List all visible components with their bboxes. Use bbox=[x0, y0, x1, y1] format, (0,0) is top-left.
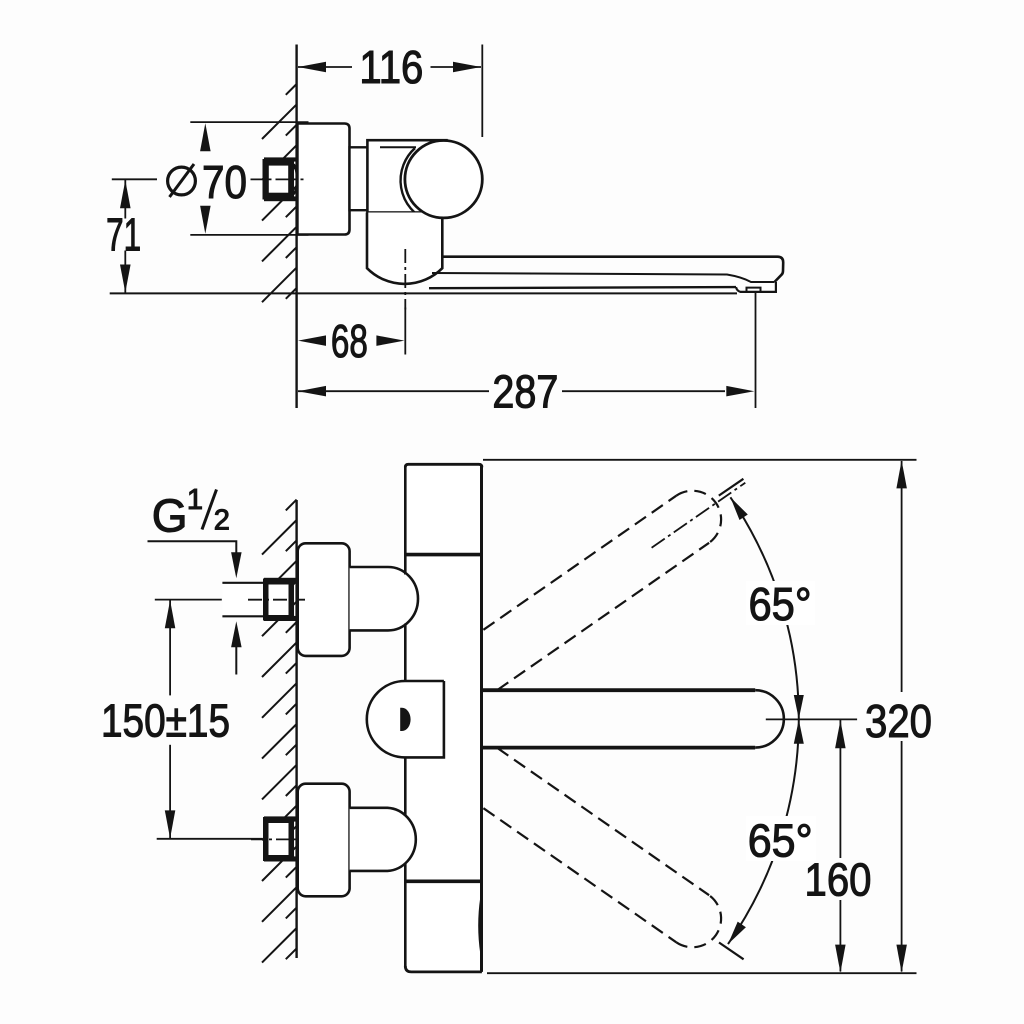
solid spout (front view) bbox=[482, 688, 755, 692]
angle text 65deg lower bbox=[746, 816, 816, 861]
lower angle tick bbox=[719, 943, 744, 960]
sensor hub (front view) bbox=[367, 681, 444, 757]
dimension 320 line and arrows bbox=[901, 461, 903, 692]
wall line (top view) bbox=[295, 45, 297, 409]
dimension 68 ext line bbox=[404, 308, 406, 355]
svg-text:287: 287 bbox=[492, 366, 558, 418]
svg-text:70: 70 bbox=[202, 156, 247, 208]
lower connector hub and dome bbox=[350, 808, 416, 871]
body outline (front view) bbox=[405, 464, 482, 467]
upper dashed spout upper edge bbox=[483, 496, 676, 630]
cartridge block (side view) bbox=[367, 140, 446, 212]
dimension 320 ext lines bbox=[483, 459, 917, 461]
svg-text:65°: 65° bbox=[749, 578, 812, 630]
angle arc lower 65deg bbox=[728, 719, 799, 944]
dimension text Ø70 bbox=[168, 167, 196, 195]
dimension Ø70 arrows bbox=[200, 123, 211, 151]
svg-text:2: 2 bbox=[214, 504, 230, 536]
hub centerline (dash-dot) bbox=[404, 249, 406, 310]
G1/2 leader line bbox=[148, 541, 237, 553]
G1/2 arrows bbox=[231, 552, 242, 578]
dimension 116 ext line right bbox=[481, 45, 483, 138]
lower dashed spout upper edge bbox=[497, 748, 709, 895]
nut cap arc (side view) bbox=[294, 164, 297, 195]
angle text 65deg upper bbox=[746, 581, 815, 625]
angle arc upper 65deg bbox=[730, 497, 798, 719]
upper connector hub and dome bbox=[350, 567, 418, 630]
top cap boundary line bbox=[404, 553, 482, 557]
bottom cap inner arc bbox=[479, 898, 481, 953]
sensor window (black) bbox=[400, 708, 410, 731]
bottom cap boundary line bbox=[404, 879, 482, 883]
dimension 116 line and arrows bbox=[298, 66, 352, 68]
dimension 71 line and arrows bbox=[124, 180, 126, 219]
lower connection nut with flange bars bbox=[264, 816, 296, 821]
upper angle tick bbox=[719, 479, 744, 496]
wall hatching (bottom view) bbox=[286, 500, 297, 511]
dimension 150±15 ext lines bbox=[155, 599, 222, 601]
lower dashed spout end cap bbox=[676, 895, 721, 947]
spout bottom edge line bbox=[429, 287, 736, 288]
svg-text:71: 71 bbox=[106, 209, 141, 261]
svg-text:160: 160 bbox=[805, 854, 872, 906]
svg-text:1: 1 bbox=[187, 484, 203, 516]
svg-text:68: 68 bbox=[331, 315, 368, 367]
inner cylinder top line bbox=[380, 146, 416, 148]
dimension 287 line and arrows bbox=[298, 390, 489, 392]
nut centerline (dash-dot) bbox=[251, 178, 304, 180]
svg-text:65°: 65° bbox=[748, 815, 813, 867]
upper dashed spout end cap bbox=[676, 491, 721, 543]
svg-text:116: 116 bbox=[359, 41, 423, 93]
spout centerline ext line bbox=[766, 718, 857, 720]
mixer knob circle (side view) bbox=[405, 141, 482, 218]
body left edge segments bbox=[404, 466, 407, 575]
svg-text:320: 320 bbox=[865, 695, 932, 747]
wall hatching (top view) bbox=[286, 84, 297, 95]
upper nut centerline (dash-dot) bbox=[248, 599, 305, 601]
lower nut centerline (dash-dot) bbox=[251, 838, 298, 840]
dimension ext line Ø70 bottom bbox=[190, 234, 308, 236]
lower dashed spout lower edge bbox=[483, 808, 676, 942]
body right edge bbox=[480, 465, 483, 972]
upper connection nut with flange bars bbox=[264, 578, 296, 583]
wall flange plate (side view) bbox=[297, 124, 349, 235]
body bottom edge bbox=[405, 966, 482, 972]
dimension 68 arrows bbox=[298, 335, 326, 346]
body fill (front view) bbox=[405, 464, 482, 972]
upper dashed spout lower edge bbox=[497, 543, 709, 690]
mounting face baseline bbox=[110, 292, 737, 294]
upper spout centerline (dash-dot) bbox=[652, 483, 746, 548]
G1/2 nut (side view) with flange bars bbox=[264, 157, 296, 161]
dimension 150±15 line and arrows bbox=[169, 600, 171, 695]
svg-text:G: G bbox=[152, 490, 188, 542]
aerator outlet bbox=[736, 282, 776, 292]
connection neck (side view) bbox=[350, 147, 381, 210]
lever cylinder arc (side view) bbox=[401, 148, 427, 220]
G1/2 supply pipe stub bbox=[222, 584, 263, 616]
aerator leader / 287 ext line bbox=[755, 292, 757, 408]
spout mid edge line bbox=[432, 273, 775, 282]
svg-text:150±15: 150±15 bbox=[101, 694, 230, 746]
wall line (bottom view) bbox=[295, 500, 297, 958]
upper escutcheon (front view) bbox=[298, 543, 350, 656]
dimension ext line Ø70 top bbox=[190, 121, 308, 123]
spout end cap arc bbox=[755, 690, 784, 747]
spout profile (side view) bbox=[443, 257, 783, 282]
dimension 160 line and arrows bbox=[839, 720, 841, 858]
lower escutcheon (front view) bbox=[298, 784, 350, 897]
spout hub (side view) bbox=[367, 213, 442, 269]
dimension 71 ext line top bbox=[112, 178, 157, 180]
